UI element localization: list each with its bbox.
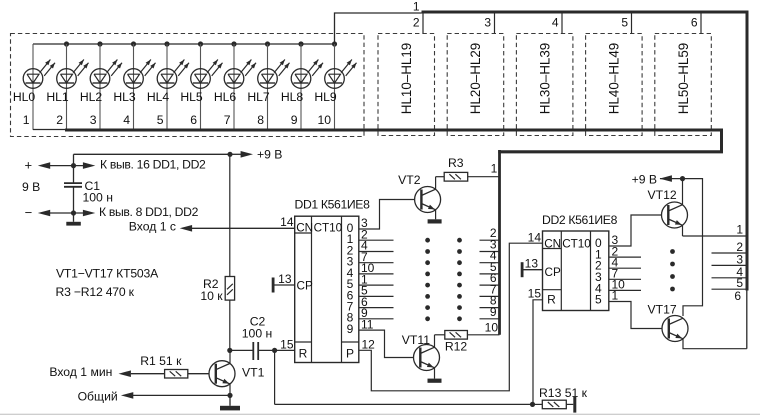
svg-text:8: 8 — [257, 113, 264, 127]
node: +9V junction — [227, 152, 232, 157]
label: 9 В battery — [22, 180, 40, 194]
wire: HL4 cathode column — [166, 44, 168, 130]
wire: VT1 collector — [229, 350, 231, 363]
wire: DD1 output 2 (pin 4) — [359, 251, 394, 253]
pin 10 label DD1 — [361, 261, 375, 275]
pin 4 label DD1 — [361, 239, 368, 253]
wire: row bus tap 2 — [712, 240, 747, 254]
pin 10 label DD2 — [612, 278, 626, 292]
svg-text:CP: CP — [297, 280, 313, 293]
wire: VT17 emitter to row 6 — [683, 289, 747, 349]
ground under VT1 — [220, 395, 240, 410]
wire: +9V feed to VT17 collector — [683, 179, 703, 316]
wire: HL5 cathode column — [200, 44, 202, 130]
node: row 1 label — [413, 0, 420, 14]
svg-text:10: 10 — [485, 320, 499, 334]
pin 9 label DD1 — [361, 306, 368, 320]
svg-text:HL9: HL9 — [314, 90, 337, 104]
pin 14 label DD2 — [528, 230, 542, 244]
node: reset rail junction — [530, 402, 535, 407]
resistor R3 470k — [444, 156, 468, 181]
svg-text:Вход 1 с: Вход 1 с — [129, 219, 176, 233]
wire: HL7 cathode column — [267, 44, 269, 130]
svg-text:R13 51 к: R13 51 к — [539, 386, 588, 400]
LED HL0 — [13, 60, 55, 127]
wire: column bus tap 7 — [480, 282, 500, 296]
svg-text:Общий: Общий — [78, 389, 118, 403]
svg-text:P: P — [346, 346, 354, 360]
terminal arrow: Вход 1 с — [129, 219, 192, 233]
wire: DD1 output 4 (pin 10) — [359, 273, 394, 275]
svg-text:К выв. 16 DD1, DD2: К выв. 16 DD1, DD2 — [100, 157, 206, 171]
svg-text:HL50–HL59: HL50–HL59 — [676, 43, 691, 114]
capacitor C2 — [242, 314, 272, 360]
svg-text:1: 1 — [23, 113, 30, 127]
terminal arrow: +9 В (row drivers) — [632, 172, 683, 186]
wire: DD1 output 8 (pin 9) — [359, 318, 394, 320]
pin 11 label DD1 — [361, 317, 374, 331]
separator line bottom — [0, 413, 760, 415]
resistor R2 10k — [200, 277, 234, 304]
svg-text:1: 1 — [612, 289, 619, 303]
wire: column 1 bottom lead into bus — [33, 129, 65, 131]
svg-text:R3 −R12 470 к: R3 −R12 470 к — [56, 285, 135, 299]
svg-text:HL5: HL5 — [180, 90, 203, 104]
wire: DD1 pin 12 (P carry) to DD2 pin 14 (CN) — [359, 243, 543, 391]
svg-text:3: 3 — [90, 113, 97, 127]
svg-text:R: R — [299, 346, 308, 360]
wire: row 1 (anode bus to row bus) — [335, 13, 422, 44]
ground under VT11 — [428, 379, 442, 383]
pin 1 label DD2 — [612, 289, 619, 303]
wire: VT11 collector — [435, 335, 445, 348]
wire: DD2 output 3 (pin 7) — [609, 278, 641, 280]
IC DD1 К561ИЕ8 (CT10 counter) — [295, 197, 371, 362]
svg-text:R1 51 к: R1 51 к — [140, 354, 182, 368]
wire: column bus tap 2 — [480, 226, 500, 240]
wire: junction to R13 — [533, 403, 543, 405]
wire: HL1 cathode column — [66, 44, 68, 130]
ellipsis dots: repeated stages VT3-VT10 — [425, 238, 462, 321]
svg-text:6: 6 — [190, 113, 197, 127]
svg-text:1: 1 — [491, 161, 498, 175]
terminal: + supply input — [25, 157, 96, 172]
svg-text:4: 4 — [552, 16, 559, 30]
svg-text:К выв. 8 DD1, DD2: К выв. 8 DD1, DD2 — [99, 205, 199, 219]
wire: HL6 cathode column — [233, 44, 235, 130]
bus: column bus right corner vertical (thick) — [720, 129, 723, 152]
svg-text:11: 11 — [361, 317, 374, 331]
wire: HL2 cathode column — [99, 44, 101, 130]
svg-text:VT1−VT17 КТ503А: VT1−VT17 КТ503А — [56, 267, 159, 281]
svg-text:9 В: 9 В — [22, 180, 40, 194]
wire: DD2 output 2 (pin 4) — [609, 267, 641, 269]
svg-text:14: 14 — [280, 215, 294, 229]
LED HL1 — [46, 60, 88, 127]
wire: DD1 output 1 (pin 2) — [359, 239, 394, 241]
wire: row 1 to row bus — [683, 223, 747, 237]
wire: R1 to VT1 base — [188, 373, 209, 375]
wire: column bus tap 8 — [480, 294, 500, 308]
node: emitter/common junction — [227, 393, 232, 398]
LED group box HL20–HL29 (dashed) — [447, 34, 504, 136]
wire: column bus tap 6 — [480, 271, 500, 285]
wire: row bus tap 5 — [712, 276, 747, 290]
pin 12 label DD1 — [362, 337, 376, 351]
wire: VT12 emitter to row 1 — [682, 225, 684, 236]
svg-text:R12: R12 — [445, 340, 468, 354]
wire: HL8 cathode column — [300, 44, 302, 130]
svg-text:CT10: CT10 — [562, 237, 591, 250]
svg-text:6: 6 — [734, 289, 741, 303]
wire: C2 to DD1 pin 15 — [258, 349, 295, 351]
wire: Вход 1 с to DD1 pin 14 — [192, 227, 295, 229]
svg-text:VT2: VT2 — [398, 173, 421, 187]
pin 3 label DD2 — [612, 233, 619, 247]
svg-text:R3: R3 — [448, 156, 464, 170]
wire: input to R1 — [131, 373, 165, 375]
LED group box HL40–HL49 (dashed) — [586, 34, 643, 136]
pin 4 label DD2 — [612, 255, 619, 269]
terminal: - supply input — [25, 205, 96, 220]
svg-text:12: 12 — [362, 337, 376, 351]
resistor R1 51k — [140, 354, 188, 378]
wire: Общий line — [133, 394, 230, 396]
wire: R3 to column bus tap 1 — [468, 161, 500, 176]
bus: column bus bottom (thick) — [65, 129, 722, 132]
wire: DD2 pin 15 (R) to reset rail — [528, 286, 543, 404]
svg-text:HL2: HL2 — [80, 90, 103, 104]
wire: +9V to R2 — [229, 154, 231, 276]
svg-text:7: 7 — [224, 113, 231, 127]
pin 5 label DD1 — [361, 284, 368, 298]
wire: VT2 emitter — [435, 210, 437, 220]
svg-text:2: 2 — [413, 16, 420, 30]
svg-text:VT11: VT11 — [402, 333, 430, 347]
svg-text:+9 В: +9 В — [632, 172, 657, 186]
svg-text:1: 1 — [413, 0, 420, 14]
common terminal after R13 — [573, 396, 576, 412]
wire: row bus tap 3 — [712, 252, 747, 266]
svg-text:5: 5 — [595, 293, 602, 307]
pin 7 label DD2 — [612, 267, 619, 281]
svg-text:6: 6 — [691, 16, 698, 30]
ground under C1 — [66, 213, 81, 226]
ellipsis dots: repeated stages VT13-VT16 — [670, 249, 675, 291]
pin 6 label DD1 — [361, 295, 368, 309]
svg-text:HL10–HL19: HL10–HL19 — [399, 43, 414, 114]
svg-text:CN: CN — [296, 221, 313, 234]
wire: VT1 collector to C2 — [230, 349, 254, 351]
resistor R13 51k — [539, 386, 588, 409]
svg-text:CN: CN — [544, 237, 561, 250]
svg-text:14: 14 — [528, 230, 542, 244]
svg-text:HL7: HL7 — [247, 90, 270, 104]
svg-text:9: 9 — [291, 113, 298, 127]
label: К выв. 16 DD1, DD2 — [100, 157, 206, 171]
terminal arrow: Общий — [78, 389, 134, 403]
transistor VT2 — [398, 173, 440, 213]
svg-text:15: 15 — [280, 337, 294, 351]
svg-text:4: 4 — [123, 113, 130, 127]
wire: pin15 junction down to reset rail — [274, 350, 276, 404]
svg-text:100 н: 100 н — [83, 190, 113, 204]
svg-text:HL40–HL49: HL40–HL49 — [607, 43, 622, 114]
svg-text:2: 2 — [56, 113, 63, 127]
wire: VT2 collector — [436, 177, 445, 190]
transistor VT11 — [402, 333, 440, 371]
svg-text:1: 1 — [736, 223, 743, 237]
wire: LED anode row bus — [33, 43, 335, 45]
wire: +9V rail top — [74, 153, 231, 155]
IC DD2 К561ИЕ8 (CT10 counter) — [542, 213, 618, 311]
pin 3 label DD1 — [361, 216, 368, 230]
LED group box HL10–HL19 (dashed) — [378, 34, 435, 136]
wire: reset rail to R13 — [275, 403, 533, 405]
label: R3-R12 values — [56, 285, 135, 299]
wire: VT12 collector — [682, 179, 684, 205]
resistor R12 470k — [445, 331, 468, 354]
svg-text:HL4: HL4 — [147, 90, 170, 104]
terminal arrow: +9 V — [230, 147, 282, 161]
node: row tap 4 — [552, 14, 562, 34]
node: +9V junction at VT12 — [680, 176, 685, 181]
pin 15 label DD1 — [280, 337, 294, 351]
svg-text:VT12: VT12 — [648, 188, 677, 202]
svg-text:15: 15 — [528, 286, 542, 300]
node: row tap 6 — [691, 14, 701, 34]
LED HL3 — [113, 60, 155, 127]
wire: column bus tap 5 — [480, 260, 500, 274]
node: row tap 2 — [413, 14, 423, 34]
node: VT1 collector junction — [227, 348, 232, 353]
bus: row bus right vertical thin tail — [746, 290, 748, 349]
wire: DD2 output 4 (pin 10) — [609, 289, 641, 291]
wire: C1 bottom lead — [73, 187, 75, 213]
junction dots on anode bus — [64, 41, 337, 46]
transistor VT1 — [209, 361, 265, 387]
wire: row bus tap 4 — [712, 265, 747, 279]
svg-text:5: 5 — [157, 113, 164, 127]
svg-text:5: 5 — [621, 16, 628, 30]
wire: DD1 output 9 (pin 11) — [359, 330, 414, 357]
LED matrix group box HL0-HL9 (dashed) — [11, 34, 365, 137]
pin 13 (CP) DD2 common terminal — [521, 256, 543, 277]
wire: HL9 cathode column — [334, 44, 336, 130]
bus: column bus vertical at DD1 stage (thick) — [498, 150, 501, 335]
wire: DD2 output 5 (pin 1) — [609, 302, 662, 329]
bus: column bus return horizontal (thick) — [498, 150, 723, 153]
wire: column bus tap 9 — [480, 305, 500, 319]
LED HL9 — [314, 60, 356, 127]
wire: HL3 cathode column — [133, 44, 135, 130]
wire: VT1 emitter — [229, 384, 231, 396]
wire: HL0 cathode column — [32, 44, 34, 130]
node: pin15 junction — [272, 348, 277, 353]
svg-text:VT17: VT17 — [648, 302, 677, 316]
LED group box HL50–HL59 (dashed) — [655, 34, 712, 136]
svg-text:−: − — [25, 205, 33, 220]
svg-text:HL8: HL8 — [281, 90, 304, 104]
LED HL8 — [281, 60, 323, 127]
svg-text:HL1: HL1 — [46, 90, 69, 104]
svg-text:3: 3 — [484, 16, 491, 30]
wire: DD2 output 0 (pin 3) — [609, 215, 662, 246]
svg-text:Вход 1 мин: Вход 1 мин — [49, 365, 112, 379]
transistor VT17 — [648, 302, 689, 341]
LED HL7 — [247, 60, 289, 127]
svg-text:13: 13 — [525, 256, 539, 270]
wire: DD1 output 0 (pin 3) — [359, 200, 415, 230]
LED HL2 — [80, 60, 122, 127]
wire: DD1 output 3 (pin 7) — [359, 262, 394, 264]
LED HL6 — [214, 60, 256, 127]
wire: column bus tap 4 — [480, 249, 500, 263]
transistor VT12 — [648, 188, 688, 228]
pin 2 label DD2 — [612, 244, 619, 258]
svg-text:HL6: HL6 — [214, 90, 237, 104]
svg-text:HL0: HL0 — [13, 90, 36, 104]
node: row tap 3 — [484, 14, 494, 34]
bus: row bus top (thick) — [422, 11, 749, 14]
node: row tap 5 — [621, 14, 631, 34]
svg-text:13: 13 — [278, 272, 292, 286]
svg-text:CT10: CT10 — [314, 221, 343, 234]
wire: VT11 emitter — [434, 368, 436, 379]
wire: DD1 output 7 (pin 6) — [359, 307, 394, 309]
svg-text:9: 9 — [490, 305, 497, 319]
wire: R12 to column bus tap 10 — [467, 320, 499, 335]
pin 2 label DD1 — [361, 227, 368, 241]
LED HL5 — [180, 60, 222, 127]
svg-text:10: 10 — [317, 113, 331, 127]
svg-text:VT1: VT1 — [242, 366, 265, 380]
svg-text:10 к: 10 к — [200, 289, 223, 303]
pin 14 label DD1 — [280, 215, 294, 229]
svg-text:HL3: HL3 — [113, 90, 136, 104]
label: VT1-VT17 types — [56, 267, 159, 281]
LED group box HL30–HL39 (dashed) — [516, 34, 573, 136]
pin 1 label DD1 — [361, 272, 368, 286]
svg-text:R: R — [547, 292, 556, 306]
capacitor C1 — [64, 179, 113, 204]
wire: C1 top lead — [73, 154, 75, 183]
wire: column bus tap 3 — [480, 238, 500, 252]
svg-text:CP: CP — [545, 266, 561, 279]
wire: DD1 output 5 (pin 1) — [359, 284, 394, 286]
svg-text:HL20–HL29: HL20–HL29 — [468, 43, 483, 114]
wire: R13 to common terminal — [566, 403, 573, 405]
svg-text:+: + — [25, 157, 33, 172]
svg-text:HL30–HL39: HL30–HL39 — [537, 43, 552, 114]
pin 7 label DD1 — [361, 250, 368, 264]
svg-text:100 н: 100 н — [242, 326, 272, 340]
terminal arrow: Вход 1 мин — [49, 365, 131, 379]
svg-text:DD1 К561ИЕ8: DD1 К561ИЕ8 — [295, 197, 371, 211]
wire: DD1 output 6 (pin 5) — [359, 295, 394, 297]
wire: DD2 output 1 (pin 2) — [609, 256, 641, 258]
ground under VT2 — [428, 219, 442, 223]
svg-text:9: 9 — [347, 322, 354, 336]
LED HL4 — [147, 60, 189, 127]
svg-text:DD2 К561ИЕ8: DD2 К561ИЕ8 — [542, 213, 618, 227]
wire: R2 to VT1 collector — [229, 300, 231, 350]
pin 13 (CP) DD1 common terminal — [272, 272, 295, 293]
svg-text:+9 В: +9 В — [257, 147, 282, 161]
label: К выв. 8 DD1, DD2 — [99, 205, 199, 219]
bus: row bus right vertical (thick) — [746, 11, 749, 291]
